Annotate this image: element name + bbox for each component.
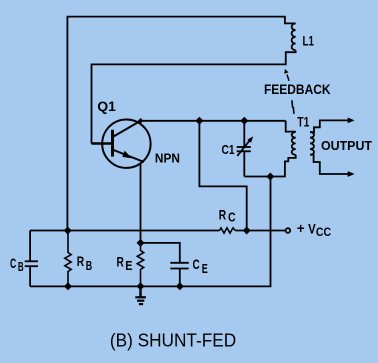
junction dot: RE bottom / ground — [137, 282, 145, 290]
wire: collector branch down to RC — [199, 121, 246, 231]
svg-text:FEEDBACK: FEEDBACK — [264, 82, 331, 98]
svg-text:E: E — [125, 258, 132, 273]
junction dot: tank bottom node — [266, 173, 274, 181]
junction dot: collector exit — [138, 118, 144, 124]
arrowhead of C1 variable arrow — [247, 136, 253, 143]
svg-text:R: R — [117, 254, 124, 270]
svg-text:C1: C1 — [222, 142, 235, 157]
junction dot: bias node (L1 top / RB) — [64, 227, 72, 235]
resistor RC — [219, 228, 235, 233]
junction dot: emitter / CE branch — [137, 239, 145, 247]
junction dot: node collector-RC branch — [195, 117, 203, 125]
inductor L1 — [292, 23, 296, 50]
feedback arrow to L1 — [287, 75, 289, 81]
svg-text:B: B — [86, 258, 92, 273]
transformer T1 primary top jog — [286, 121, 296, 132]
wire: L1 bottom to base — [92, 50, 296, 143]
svg-text:R: R — [219, 207, 226, 223]
wire: emitter down — [140, 164, 142, 243]
wire: T1 secondary top lead to output — [310, 120, 349, 132]
wire: base lead — [92, 142, 112, 144]
transformer T1 secondary coil — [310, 132, 314, 155]
svg-text:C: C — [193, 256, 200, 272]
svg-text:R: R — [77, 253, 84, 269]
wire: tank bottom — [244, 155, 295, 177]
capacitor C1 (variable) — [237, 121, 251, 177]
capacitor CE — [170, 263, 188, 287]
wire: collector node horizontal — [141, 120, 286, 122]
wire: CE branch top — [141, 243, 180, 263]
svg-text:B: B — [18, 259, 24, 274]
svg-text:CC: CC — [316, 225, 331, 239]
junction dot: RB bottom — [64, 282, 72, 290]
wire: VCC bus (left of RC) — [30, 230, 219, 232]
wire: L1 top loop (bias node to L1 top) — [67, 17, 295, 231]
svg-text:+: + — [297, 221, 305, 236]
svg-text:L1: L1 — [303, 33, 315, 49]
svg-text:Q1: Q1 — [97, 98, 116, 114]
svg-text:NPN: NPN — [155, 150, 180, 165]
transistor Q1 — [102, 120, 150, 168]
svg-text:C: C — [228, 209, 236, 224]
resistor RE — [137, 243, 143, 287]
output arrow bottom — [348, 171, 355, 177]
svg-text:OUTPUT: OUTPUT — [321, 138, 372, 153]
wire: T1 secondary bottom lead to output — [310, 155, 349, 174]
junction dot: node C1 top — [240, 117, 248, 125]
ground symbol — [135, 286, 146, 304]
svg-text:E: E — [202, 261, 208, 276]
wire: VCC bus (right of RC) — [235, 230, 285, 232]
terminal: VCC open circle — [286, 228, 291, 233]
resistor RB — [65, 231, 71, 287]
junction dot: CE bottom — [176, 282, 184, 290]
transformer T1 primary coil — [292, 132, 296, 155]
svg-text:T1: T1 — [297, 115, 309, 130]
output arrow top — [348, 118, 355, 124]
svg-text:(B) SHUNT-FED: (B) SHUNT-FED — [110, 330, 236, 350]
emitter arrow of Q1 — [122, 151, 131, 159]
wire: ground bus bottom — [30, 177, 270, 287]
junction dot: RC to collector branch — [243, 227, 251, 235]
svg-text:V: V — [308, 221, 316, 236]
feedback arrow to T1 — [292, 100, 294, 114]
svg-text:C: C — [10, 255, 16, 271]
capacitor CB — [25, 231, 38, 287]
